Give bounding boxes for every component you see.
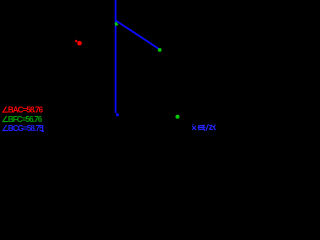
- label word blob 1: [198, 125, 206, 131]
- point A (red, being dragged - small blob): [75, 40, 78, 43]
- point B (green wedge marker at junction): [115, 21, 118, 26]
- wire: vertical segment (line CG): [115, 0, 117, 113]
- svg-text:∠BFC=56.76: ∠BFC=56.76: [2, 115, 43, 124]
- action button label (blue italic, bottom right): [192, 124, 216, 131]
- label slash: [206, 124, 208, 130]
- point A (red, larger blob): [77, 41, 82, 46]
- point G (green, lower right): [176, 115, 180, 119]
- wire: diagonal segment (chord): [116, 21, 160, 50]
- text cursor caret after blue measurement: [42, 125, 44, 131]
- svg-text:∠BCG=58.75: ∠BCG=58.75: [2, 124, 45, 133]
- svg-text:∠BAC=58.76: ∠BAC=58.76: [2, 106, 44, 115]
- label glyph X: [192, 124, 196, 130]
- point at bottom of vertical line (blue endpoint): [116, 113, 119, 117]
- label word blob 2: [209, 125, 215, 130]
- point C (green, end of diagonal): [158, 48, 162, 52]
